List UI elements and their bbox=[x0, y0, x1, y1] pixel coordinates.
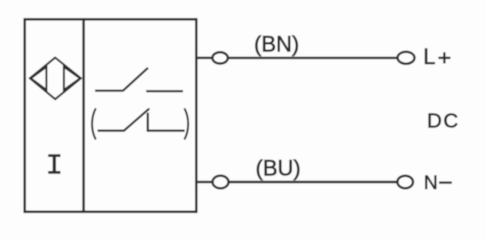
svg-text:L: L bbox=[423, 44, 435, 69]
svg-text:(BU): (BU) bbox=[256, 155, 301, 180]
svg-text:N: N bbox=[424, 172, 438, 194]
svg-text:I: I bbox=[46, 150, 63, 183]
svg-text:DC: DC bbox=[427, 110, 460, 133]
svg-text:(BN): (BN) bbox=[254, 32, 299, 57]
